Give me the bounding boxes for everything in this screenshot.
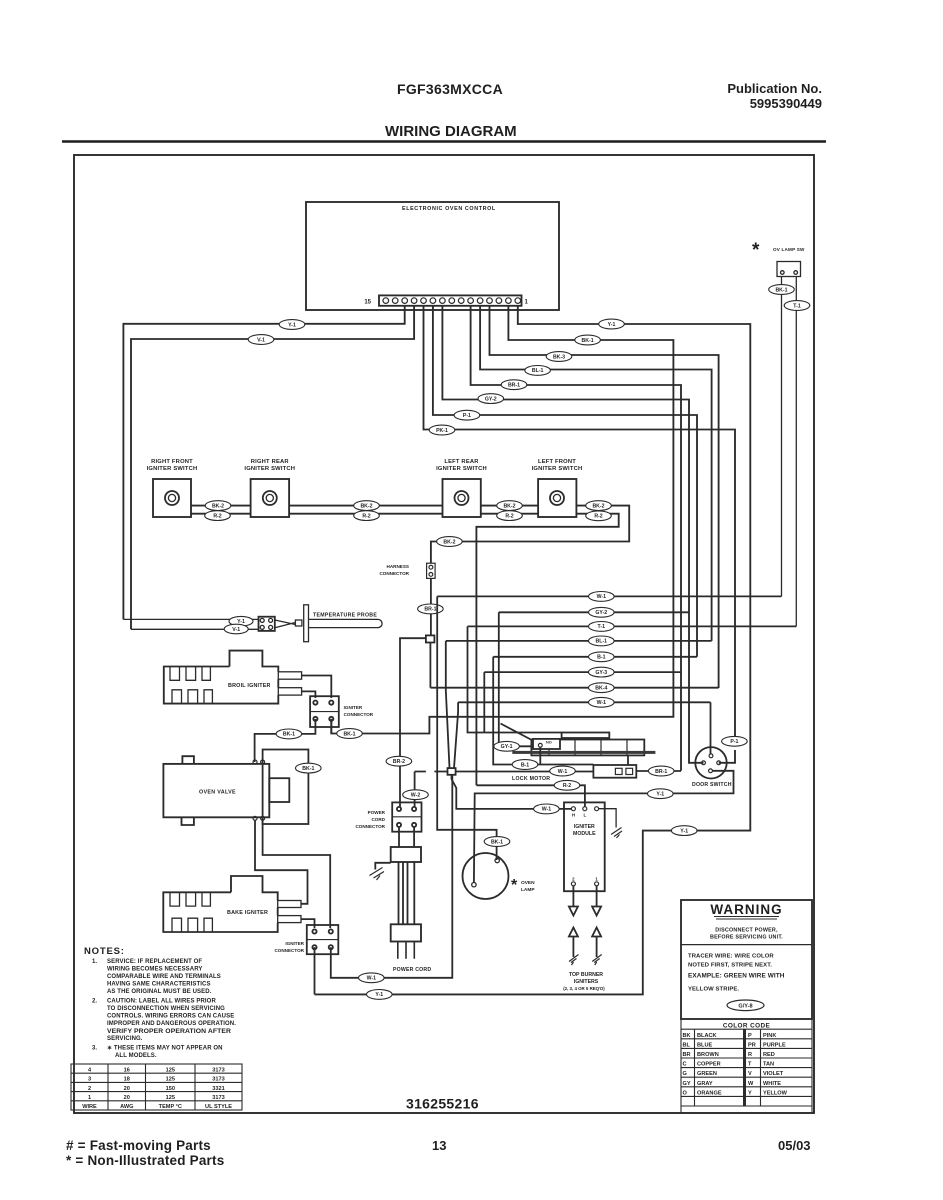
wire node down to bottom W row xyxy=(331,775,453,978)
power cord wires xyxy=(399,862,415,924)
svg-text:V-1: V-1 xyxy=(257,337,265,343)
svg-text:BK-3: BK-3 xyxy=(553,354,565,360)
svg-text:HARNESS: HARNESS xyxy=(387,564,409,569)
wire label row3 T-1 xyxy=(589,622,615,632)
wire oven valve to bake igniter xyxy=(255,820,308,904)
svg-text:IGNITER SWITCH: IGNITER SWITCH xyxy=(532,466,583,472)
wire label Y-1 left xyxy=(279,320,305,330)
svg-text:O: O xyxy=(683,1090,688,1096)
wire label BK-1 at lamp switch xyxy=(769,285,795,295)
wire row1 drop to lamp feed xyxy=(437,596,496,860)
svg-text:1: 1 xyxy=(595,877,598,882)
svg-text:Y-1: Y-1 xyxy=(288,322,296,328)
svg-text:B-1: B-1 xyxy=(521,762,529,768)
wire label R-2 a xyxy=(205,511,231,521)
svg-text:FGF363MXCCA: FGF363MXCCA xyxy=(397,81,503,97)
wire Y-1 from T13 left to rail xyxy=(123,306,404,619)
svg-text:G: G xyxy=(683,1071,687,1077)
svg-text:ELECTRONIC OVEN CONTROL: ELECTRONIC OVEN CONTROL xyxy=(402,206,496,212)
svg-text:13: 13 xyxy=(432,1138,446,1153)
svg-text:BK-1: BK-1 xyxy=(343,731,355,737)
svg-text:R-2: R-2 xyxy=(213,513,221,519)
svg-text:R: R xyxy=(748,1052,752,1058)
svg-text:20: 20 xyxy=(124,1095,130,1101)
wire label P-1 door switch xyxy=(722,736,748,746)
svg-text:1: 1 xyxy=(88,1095,91,1101)
svg-text:EXAMPLE: GREEN WIRE WITH: EXAMPLE: GREEN WIRE WITH xyxy=(688,973,785,980)
svg-text:BAKE IGNITER: BAKE IGNITER xyxy=(227,910,268,916)
harness connector J1 xyxy=(427,563,436,578)
lock motor connector xyxy=(476,702,710,806)
svg-text:16: 16 xyxy=(124,1067,130,1073)
svg-text:GY: GY xyxy=(683,1081,691,1087)
wire label BK-1 right xyxy=(337,729,363,739)
svg-text:Y-1: Y-1 xyxy=(375,992,383,998)
wire lock motor NO to lower connector xyxy=(540,747,628,765)
svg-text:W-1: W-1 xyxy=(597,700,607,706)
svg-text:BR-1: BR-1 xyxy=(424,607,436,613)
svg-text:HAVING SAME CHARACTERISTICS: HAVING SAME CHARACTERISTICS xyxy=(107,982,211,988)
svg-text:CONNECTOR: CONNECTOR xyxy=(274,948,304,953)
wire node S-bend to igniter module H xyxy=(452,775,572,809)
svg-text:WIRE: WIRE xyxy=(82,1104,97,1110)
warning text xyxy=(710,928,783,941)
svg-text:125: 125 xyxy=(166,1077,175,1083)
wire label V-1 left xyxy=(248,335,274,345)
wire label row5 B-1 xyxy=(589,652,615,662)
wire row8 drop to node funnel right xyxy=(454,702,458,768)
wire lock motor connector to BR-1 riser xyxy=(636,770,681,772)
wire label B-1 xyxy=(512,760,538,770)
svg-text:RED: RED xyxy=(763,1052,775,1058)
wire label Y-1 right xyxy=(599,319,625,329)
svg-text:BL-1: BL-1 xyxy=(596,639,608,645)
svg-text:4: 4 xyxy=(88,1067,92,1073)
wire row5 drop to B-1 xyxy=(493,657,593,765)
svg-text:Publication No.: Publication No. xyxy=(727,81,822,96)
wire label BK-2 to harness xyxy=(437,537,463,547)
svg-text:BR-1: BR-1 xyxy=(508,383,520,389)
temperature probe assembly xyxy=(123,605,382,642)
wire oven valve to igniter connector 2 xyxy=(263,820,331,928)
wire label row7 BK-4 xyxy=(589,683,615,693)
svg-text:H: H xyxy=(572,813,575,818)
wire label P-1 xyxy=(454,410,480,420)
wire R-2 row to igniter module L xyxy=(476,785,585,806)
svg-text:T-1: T-1 xyxy=(793,303,801,309)
wire row6 GY-3 xyxy=(484,671,681,673)
svg-text:L: L xyxy=(583,813,586,818)
svg-text:COLOR CODE: COLOR CODE xyxy=(723,1022,771,1029)
svg-text:CONNECTOR: CONNECTOR xyxy=(355,824,385,829)
wire label Y-1 door switch row xyxy=(648,789,674,799)
svg-text:3321: 3321 xyxy=(212,1086,224,1092)
svg-text:IGNITER SWITCH: IGNITER SWITCH xyxy=(147,466,198,472)
wire module third terminal to ground xyxy=(599,809,617,828)
power cord connector label xyxy=(355,810,385,829)
broil igniter upper prong xyxy=(278,672,301,679)
lock motor M1 xyxy=(531,733,644,756)
svg-text:GY-2: GY-2 xyxy=(485,396,497,402)
wire label BK-3 xyxy=(546,352,572,362)
svg-text:BLUE: BLUE xyxy=(697,1042,712,1048)
wire bake lower prong to connector 2 xyxy=(301,919,315,928)
ground symbol igniter module xyxy=(611,828,622,839)
svg-text:BK-4: BK-4 xyxy=(595,686,607,692)
wire BL-1 from T5 down to row4 xyxy=(480,306,711,641)
svg-text:PURPLE: PURPLE xyxy=(763,1042,786,1048)
harness connector label xyxy=(379,564,409,576)
wire P-1 from T10 down to row5 xyxy=(433,306,697,657)
svg-text:W-1: W-1 xyxy=(367,976,377,982)
svg-text:2.: 2. xyxy=(92,999,97,1005)
svg-text:R-2: R-2 xyxy=(505,513,513,519)
svg-text:TO DISCONNECTION WHEN SERVICIN: TO DISCONNECTION WHEN SERVICING xyxy=(107,1006,225,1012)
svg-text:316255216: 316255216 xyxy=(406,1096,479,1112)
igniter connector J4 xyxy=(307,925,339,954)
wire row4 drop to node funnel left xyxy=(446,641,450,768)
svg-text:150: 150 xyxy=(166,1086,175,1092)
wire lamp sw right to row3 xyxy=(795,277,797,627)
wire broil upper prong to connector xyxy=(302,676,332,699)
left rear igniter switch S5 xyxy=(443,479,481,517)
svg-text:IGNITER: IGNITER xyxy=(344,705,363,710)
igniter module U2 xyxy=(564,802,616,891)
wire label R-2 b xyxy=(354,511,380,521)
svg-text:UL STYLE: UL STYLE xyxy=(205,1104,232,1110)
wire node to W-2 and lock motor xyxy=(415,771,594,773)
svg-text:2: 2 xyxy=(88,1086,91,1092)
svg-text:Y-1: Y-1 xyxy=(680,828,688,834)
svg-text:BK: BK xyxy=(683,1033,691,1039)
svg-text:BEFORE SERVICING UNIT.: BEFORE SERVICING UNIT. xyxy=(710,935,783,941)
svg-text:OVEN VALVE: OVEN VALVE xyxy=(199,790,236,796)
svg-text:WIRING BECOMES NECESSARY: WIRING BECOMES NECESSARY xyxy=(107,967,203,973)
wire R-2 switch chain lower xyxy=(191,514,619,786)
wire label GY-2 xyxy=(478,394,504,404)
svg-text:TEMPERATURE PROBE: TEMPERATURE PROBE xyxy=(313,613,377,619)
wire label BR-1 lock motor xyxy=(648,766,674,776)
svg-text:TAN: TAN xyxy=(763,1062,774,1068)
svg-text:VIOLET: VIOLET xyxy=(763,1071,784,1077)
svg-text:R-2: R-2 xyxy=(563,783,571,789)
wire label BK-1 left xyxy=(276,729,302,739)
svg-text:GY-2: GY-2 xyxy=(595,610,607,616)
wire row3 T-1 xyxy=(468,625,797,627)
wire label GY-1 xyxy=(494,741,520,751)
oven valve top tab xyxy=(182,756,194,764)
wire BK-1 connector to oven valve xyxy=(255,719,332,762)
wire label BK-2 c xyxy=(497,501,523,511)
wire PK-1 from T11 down to door switch xyxy=(424,306,736,763)
oven lamp label xyxy=(521,880,535,893)
wire label BK-2 a xyxy=(205,501,231,511)
wire broil lower prong to connector xyxy=(302,691,316,698)
svg-text:2: 2 xyxy=(572,877,575,882)
igniter module label xyxy=(573,824,596,837)
svg-text:BROIL IGNITER: BROIL IGNITER xyxy=(228,683,271,689)
igniter module terminal labels xyxy=(572,813,599,882)
svg-text:P-1: P-1 xyxy=(463,413,471,419)
svg-text:CAUTION: LABEL ALL WIRES PRI: CAUTION: LABEL ALL WIRES PRIOR xyxy=(107,999,216,1005)
svg-text:GREEN: GREEN xyxy=(697,1071,717,1077)
svg-text:Y-1: Y-1 xyxy=(608,322,616,328)
wire W-2 down to power cord connector xyxy=(414,772,416,807)
tracer wire text xyxy=(688,954,785,993)
svg-text:G/Y-8: G/Y-8 xyxy=(738,1004,752,1010)
door switch S7 xyxy=(695,747,726,778)
svg-text:BK-1: BK-1 xyxy=(582,338,594,344)
warning divider xyxy=(681,944,812,946)
svg-text:RIGHT FRONT: RIGHT FRONT xyxy=(151,459,193,465)
probe ferrule xyxy=(295,620,302,626)
svg-text:PR: PR xyxy=(748,1042,756,1048)
color code entries xyxy=(683,1033,788,1097)
middle horizontal wire rows 1-8 xyxy=(331,596,797,977)
svg-text:18: 18 xyxy=(124,1077,130,1083)
svg-text:IGNITER: IGNITER xyxy=(285,941,304,946)
wire label R-2 lock motor xyxy=(554,780,580,790)
svg-text:BR: BR xyxy=(683,1052,691,1058)
wire row3 drop to lock motor plate xyxy=(468,626,562,732)
svg-text:V-1: V-1 xyxy=(232,627,240,633)
svg-text:SERVICING.: SERVICING. xyxy=(107,1036,143,1042)
wire BK-3 from T4 down to row7 xyxy=(490,306,719,688)
wire label BK-2 b xyxy=(354,501,380,511)
svg-text:WARNING: WARNING xyxy=(710,902,782,917)
wire gauge table xyxy=(71,1064,242,1110)
wire BK-1 from T2 right down to broil connector xyxy=(331,306,673,734)
wire label BK-1 xyxy=(575,335,601,345)
wire label Y-1 probe xyxy=(229,616,253,626)
svg-text:BK-1: BK-1 xyxy=(775,287,787,293)
igniter connector J3 xyxy=(310,696,339,727)
probe lead crossover xyxy=(275,620,296,628)
svg-text:RIGHT REAR: RIGHT REAR xyxy=(251,459,290,465)
svg-text:C: C xyxy=(683,1062,687,1068)
svg-text:LEFT REAR: LEFT REAR xyxy=(444,459,479,465)
svg-text:IGNITERS: IGNITERS xyxy=(574,979,599,985)
svg-text:OVEN: OVEN xyxy=(521,880,535,886)
wire Y-1 connector2 to module vertical xyxy=(314,947,316,994)
svg-text:* = Non-Illustrated Parts: * = Non-Illustrated Parts xyxy=(66,1153,224,1168)
svg-text:∗ THESE ITEMS MAY NOT APPEAR O: ∗ THESE ITEMS MAY NOT APPEAR ON xyxy=(107,1046,223,1052)
svg-text:3173: 3173 xyxy=(212,1095,224,1101)
svg-text:W-1: W-1 xyxy=(558,769,568,775)
wire label BK-1 on valve loop xyxy=(296,763,322,773)
wire row7 BK-4 xyxy=(430,687,718,689)
tracer example oval G/Y-8 xyxy=(727,1000,764,1011)
svg-text:COPPER: COPPER xyxy=(697,1062,721,1068)
lock motor NO switch box xyxy=(533,739,560,749)
svg-text:BL-1: BL-1 xyxy=(532,368,544,374)
svg-text:YELLOW: YELLOW xyxy=(763,1090,788,1096)
junction node square B xyxy=(448,768,456,775)
wire Y row door switch to lamp xyxy=(474,771,734,883)
wire label R-2 d xyxy=(586,511,612,521)
svg-text:Y: Y xyxy=(748,1090,752,1096)
wire BK-2 switch chain upper xyxy=(191,506,629,564)
warning box xyxy=(681,900,812,1019)
svg-text:W-1: W-1 xyxy=(597,594,607,600)
svg-text:*: * xyxy=(752,240,760,261)
wire label row2 GY-2 xyxy=(589,607,615,617)
svg-text:WHITE: WHITE xyxy=(763,1081,781,1087)
power cord connector J5 xyxy=(392,802,421,831)
probe cross guard xyxy=(304,605,309,642)
svg-text:MODULE: MODULE xyxy=(573,831,596,837)
svg-text:*: * xyxy=(511,877,518,894)
wire label BK-2 d xyxy=(586,501,612,511)
spark output arrows terminal 2 xyxy=(569,886,579,965)
svg-text:PK-1: PK-1 xyxy=(436,428,448,434)
svg-text:V: V xyxy=(748,1071,752,1077)
wire label W-1 bottom xyxy=(359,973,385,983)
svg-text:YELLOW STRIPE.: YELLOW STRIPE. xyxy=(688,987,739,993)
svg-text:BK-1: BK-1 xyxy=(283,732,295,738)
bake igniter HTR2 xyxy=(163,876,301,932)
wire label T-1 at lamp switch xyxy=(784,301,810,311)
svg-text:IGNITER: IGNITER xyxy=(574,824,595,830)
wire label BK-1 lamp xyxy=(484,837,510,847)
svg-text:R-2: R-2 xyxy=(362,513,370,519)
igniter connector label 1 xyxy=(344,705,374,717)
probe shaft xyxy=(309,619,383,627)
svg-text:15: 15 xyxy=(364,300,371,306)
wire label row6 GY-3 xyxy=(589,667,615,677)
svg-text:BK-1: BK-1 xyxy=(491,839,503,845)
oven valve terminals xyxy=(253,760,257,764)
svg-text:DOOR SWITCH: DOOR SWITCH xyxy=(692,782,732,788)
svg-text:125: 125 xyxy=(166,1067,175,1073)
svg-text:3173: 3173 xyxy=(212,1067,224,1073)
wire label PK-1 xyxy=(429,425,455,435)
wire label W-2 xyxy=(403,790,429,800)
oven lamp DS1 xyxy=(463,853,509,899)
left front igniter switch S6 xyxy=(538,479,576,517)
lock motor top plate xyxy=(562,733,610,739)
wire label Y-1 module riser row xyxy=(671,826,697,836)
junction node square A xyxy=(426,635,435,642)
svg-text:BL: BL xyxy=(683,1042,691,1048)
wire label row8 W-1 xyxy=(589,697,615,707)
wire row2 GY-2 xyxy=(499,611,689,613)
svg-text:B-1: B-1 xyxy=(597,655,605,661)
svg-text:GY-1: GY-1 xyxy=(501,744,513,750)
lock motor hatch bar xyxy=(512,751,655,754)
svg-text:BK-2: BK-2 xyxy=(503,503,515,509)
EOC terminal strip xyxy=(379,295,522,305)
broil igniter lower prong xyxy=(278,688,301,695)
wire lamp sw left to row1 xyxy=(781,277,783,597)
svg-text:BLACK: BLACK xyxy=(697,1033,717,1039)
svg-text:LAMP: LAMP xyxy=(521,887,535,893)
svg-text:VERIFY PROPER OPERATION AFTER: VERIFY PROPER OPERATION AFTER xyxy=(107,1028,231,1035)
svg-text:GY-3: GY-3 xyxy=(595,670,607,676)
wire label row1 W-1 xyxy=(589,592,615,602)
svg-text:CONTROLS. WIRING ERRORS CAN C: CONTROLS. WIRING ERRORS CAN CAUSE xyxy=(107,1014,234,1020)
wire V-1 from T12 left to rail xyxy=(131,306,414,629)
svg-text:BROWN: BROWN xyxy=(697,1052,719,1058)
lock motor body xyxy=(531,740,644,756)
wire into probe ovals xyxy=(123,619,258,629)
wire row4 BL-1 xyxy=(446,640,712,642)
svg-text:PINK: PINK xyxy=(763,1033,776,1039)
wire BR-1 from T6 down to lock motor row xyxy=(471,306,681,771)
wire row6 drop to lock motor plate xyxy=(483,672,485,732)
svg-text:3: 3 xyxy=(88,1077,91,1083)
svg-text:BR-1: BR-1 xyxy=(655,769,667,775)
svg-text:GRAY: GRAY xyxy=(697,1081,713,1087)
wire label row4 BL-1 xyxy=(589,636,615,646)
svg-text:T: T xyxy=(748,1062,752,1068)
svg-text:NOTED FIRST, STRIPE NEXT.: NOTED FIRST, STRIPE NEXT. xyxy=(688,963,772,969)
wire label R-2 c xyxy=(497,511,523,521)
power cord prongs xyxy=(398,942,415,959)
wire row8 drop to door switch top xyxy=(710,702,712,754)
svg-text:AS THE ORIGINAL MUST BE USED.: AS THE ORIGINAL MUST BE USED. xyxy=(107,989,212,995)
terminal circles 1-15 xyxy=(383,298,521,304)
svg-text:OV LAMP SW: OV LAMP SW xyxy=(773,247,805,252)
right front igniter switch S3 xyxy=(153,479,191,517)
svg-text:W: W xyxy=(748,1081,754,1087)
electronic oven control box U1 xyxy=(306,202,559,310)
power cord strain relief xyxy=(375,827,421,959)
svg-text:W-2: W-2 xyxy=(411,793,421,799)
svg-text:P-1: P-1 xyxy=(730,739,738,745)
wire label W-1 at module H xyxy=(534,804,560,814)
svg-text:POWER CORD: POWER CORD xyxy=(393,967,431,973)
svg-text:1.: 1. xyxy=(92,959,97,965)
wire GY-2 from T9 down to row2 and door switch xyxy=(442,306,703,763)
svg-text:LEFT FRONT: LEFT FRONT xyxy=(538,459,576,465)
wire Y-1 from T1 right then down xyxy=(315,306,751,994)
svg-text:SERVICE: IF REPLACEMENT OF: SERVICE: IF REPLACEMENT OF xyxy=(107,959,202,965)
wire to power cord ground xyxy=(375,863,390,870)
top burner igniters label xyxy=(563,972,605,991)
svg-text:TEMP °C: TEMP °C xyxy=(159,1104,182,1110)
oven valve V1 xyxy=(163,750,308,826)
svg-text:05/03: 05/03 xyxy=(778,1138,811,1153)
svg-text:AWG: AWG xyxy=(120,1104,133,1110)
wire label W-1 lock motor xyxy=(550,766,576,776)
svg-text:CONNECTOR: CONNECTOR xyxy=(344,712,374,717)
wire label BL-1 xyxy=(525,366,551,376)
svg-text:BR-2: BR-2 xyxy=(393,759,405,765)
svg-text:DISCONNECT POWER,: DISCONNECT POWER, xyxy=(715,928,778,934)
oven valve bottom tab xyxy=(182,817,194,825)
svg-text:5995390449: 5995390449 xyxy=(750,96,822,111)
svg-text:POWER: POWER xyxy=(368,810,386,815)
svg-text:IGNITER SWITCH: IGNITER SWITCH xyxy=(244,466,295,472)
svg-text:IGNITER SWITCH: IGNITER SWITCH xyxy=(436,466,487,472)
bake igniter lower prong xyxy=(278,916,301,923)
svg-text:NOTES:: NOTES: xyxy=(84,946,125,957)
oven valve cover loop xyxy=(263,750,309,825)
notes text xyxy=(92,959,236,1059)
bake igniter upper prong xyxy=(278,901,301,908)
wire label BR-2 xyxy=(386,756,412,766)
svg-text:WIRING DIAGRAM: WIRING DIAGRAM xyxy=(385,123,517,140)
wire row1 W-1 xyxy=(437,595,781,597)
wire row5 B-1 xyxy=(493,656,697,658)
svg-text:Y-1: Y-1 xyxy=(656,792,664,798)
color code table xyxy=(681,1019,812,1113)
ground symbol power cord xyxy=(370,868,385,881)
broil igniter HTR1 xyxy=(164,651,302,704)
main border frame xyxy=(74,155,814,1113)
svg-text:BK-2: BK-2 xyxy=(592,503,604,509)
